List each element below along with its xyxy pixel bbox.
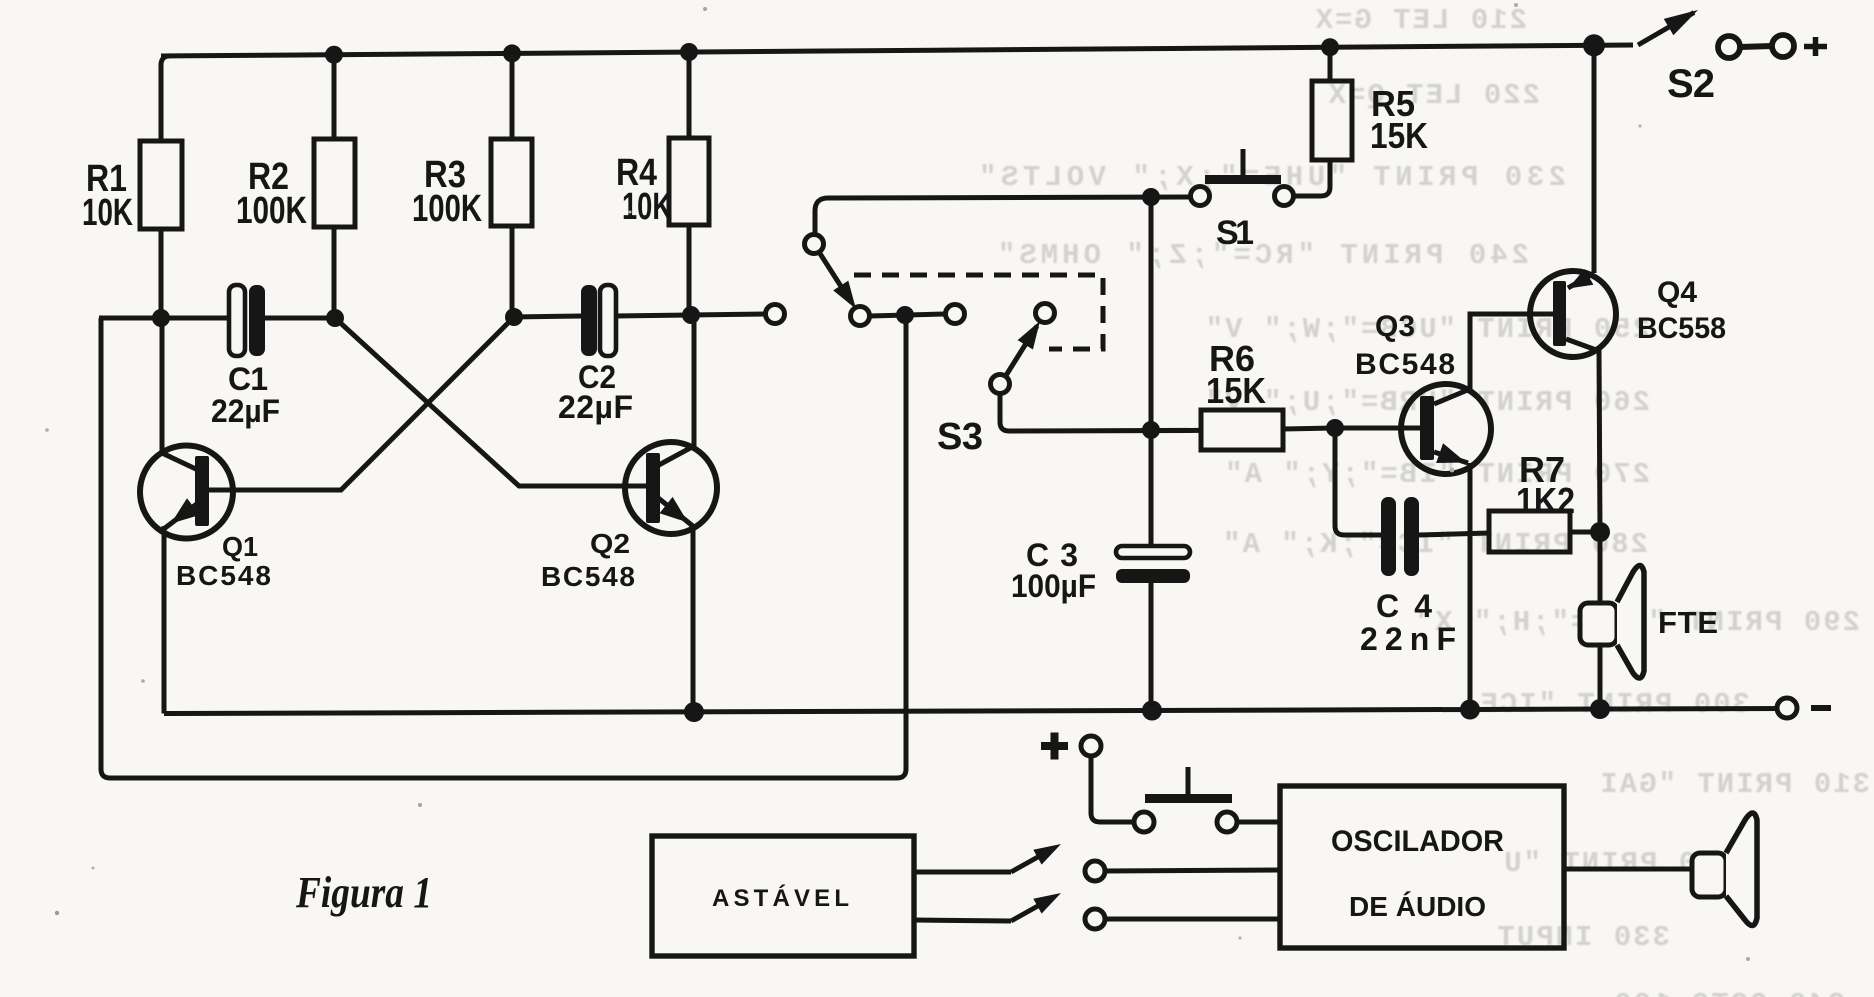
- svg-text:FTE: FTE: [1658, 605, 1718, 640]
- svg-text:240 PRINT "RC=";Z;" OHMS": 240 PRINT "RC=";Z;" OHMS": [994, 239, 1529, 272]
- svg-text:OSCILADOR: OSCILADOR: [1331, 825, 1504, 858]
- svg-text:250 PRINT "UCB=";W;" V": 250 PRINT "UCB=";W;" V": [1204, 313, 1650, 346]
- svg-text:BC558: BC558: [1637, 312, 1726, 345]
- svg-text:100µF: 100µF: [1011, 568, 1096, 604]
- svg-text:300 PRINT "ICE: 300 PRINT "ICE: [1478, 688, 1750, 721]
- svg-text:C1: C1: [228, 361, 268, 397]
- svg-text:100K: 100K: [412, 188, 482, 230]
- svg-text:BC548: BC548: [176, 560, 271, 591]
- svg-text:210 LET G=X: 210 LET G=X: [1314, 4, 1527, 37]
- svg-text:Q1: Q1: [222, 531, 258, 562]
- svg-text:ASTÁVEL: ASTÁVEL: [712, 884, 849, 912]
- svg-text:BC548: BC548: [1355, 348, 1455, 381]
- svg-text:10K: 10K: [82, 192, 133, 234]
- svg-text:1K2: 1K2: [1516, 480, 1575, 521]
- svg-text:DE ÁUDIO: DE ÁUDIO: [1349, 891, 1486, 922]
- svg-text:Q2: Q2: [590, 528, 630, 559]
- svg-text:S1: S1: [1216, 214, 1254, 252]
- svg-text:310 PRINT "GAI: 310 PRINT "GAI: [1598, 768, 1870, 801]
- svg-text:15K: 15K: [1370, 115, 1428, 156]
- svg-text:BC548: BC548: [541, 561, 635, 592]
- svg-text:S2: S2: [1667, 62, 1715, 106]
- svg-text:10K: 10K: [622, 186, 672, 228]
- svg-text:100K: 100K: [236, 190, 307, 232]
- svg-text:220 LET Q=X: 220 LET Q=X: [1327, 79, 1540, 112]
- svg-text:Q4: Q4: [1657, 276, 1697, 309]
- svg-text:Q3: Q3: [1375, 310, 1415, 343]
- svg-text:Figura 1: Figura 1: [295, 868, 432, 917]
- svg-text:15K: 15K: [1206, 370, 1266, 411]
- svg-text:22µF: 22µF: [558, 389, 633, 425]
- svg-text:S3: S3: [937, 416, 983, 458]
- svg-text:22µF: 22µF: [211, 393, 280, 429]
- svg-text:340 GOTO 100: 340 GOTO 100: [1612, 988, 1845, 997]
